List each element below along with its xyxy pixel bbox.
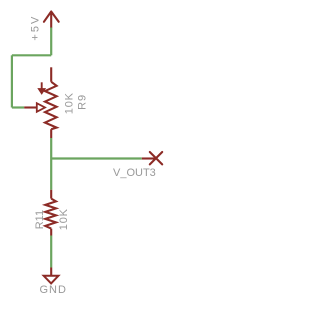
trimpot R9 adjust arrow	[38, 82, 45, 94]
svg-text:V_OUT3: V_OUT3	[113, 167, 156, 179]
wire left vertical	[11, 55, 13, 107]
wire top horizontal	[12, 54, 51, 56]
trimpot R9 wiper arrow triangle	[37, 103, 45, 112]
resistor R11 top pin	[50, 190, 52, 199]
trimpot R9 wiper pin line	[24, 106, 37, 108]
svg-text:10K: 10K	[63, 92, 75, 114]
wire pot bottom to R11 (through junction)	[50, 138, 52, 190]
svg-text:R11: R11	[34, 210, 46, 229]
resistor R11 bottom pin	[50, 229, 52, 236]
supply +5V arrow symbol	[44, 12, 59, 28]
terminal pin line	[142, 157, 155, 159]
ground symbol pin	[50, 268, 52, 276]
resistor R11 zigzag body	[45, 199, 56, 229]
trimpot R9 bottom pin	[50, 129, 52, 138]
terminal X V_OUT3	[150, 152, 162, 164]
wire R11 to GND	[50, 236, 52, 268]
trimpot R9 zigzag body	[45, 82, 57, 129]
wire +5V arrow to corner	[50, 28, 52, 56]
svg-text:GND: GND	[40, 284, 67, 296]
wire junction to terminal	[51, 157, 142, 159]
trimpot R9 top pin	[50, 67, 52, 82]
svg-text:+5V: +5V	[29, 15, 41, 41]
svg-text:10K: 10K	[58, 208, 70, 230]
wire to wiper	[12, 106, 24, 108]
svg-text:R9: R9	[77, 94, 89, 110]
ground triangle	[44, 276, 59, 284]
